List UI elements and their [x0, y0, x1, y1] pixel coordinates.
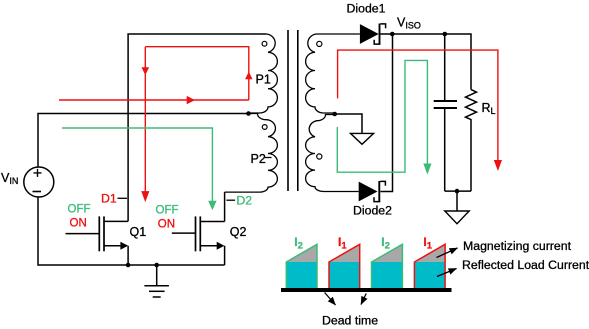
svg-text:Magnetizing current: Magnetizing current — [463, 239, 572, 253]
svg-text:Q2: Q2 — [230, 225, 247, 239]
green current path secondary — [337, 60, 427, 172]
red arrow down mid (primary loop) — [142, 67, 150, 75]
red arrow right (feed line) — [187, 96, 195, 104]
transistor Q2 — [172, 216, 225, 265]
waveform pulse 3 (I2, green) — [372, 244, 403, 288]
svg-text:P1: P1 — [256, 73, 271, 87]
node dot cap branch — [443, 32, 448, 37]
svg-text:VIN: VIN — [1, 171, 18, 186]
diode D1 (Diode1) — [360, 24, 471, 90]
svg-text:Diode1: Diode1 — [347, 2, 386, 16]
svg-text:I1: I1 — [338, 235, 347, 252]
node dot VISO — [390, 32, 395, 37]
capacitor C — [434, 34, 457, 191]
waveform pulse 4 (I1, red) — [414, 244, 445, 288]
red current loop primary — [59, 47, 249, 192]
annotation arrow magnetizing current — [437, 248, 458, 258]
polarity dot secondary lower — [317, 154, 322, 159]
transformer core — [288, 30, 298, 191]
svg-text:I2: I2 — [381, 235, 390, 252]
svg-text:Dead time: Dead time — [322, 314, 378, 328]
ground (primary) — [144, 265, 169, 297]
node dot load rail — [455, 189, 460, 194]
dead time arrow right — [361, 294, 366, 305]
transformer primary winding P2 — [225, 114, 278, 193]
svg-text:I1: I1 — [423, 235, 432, 252]
svg-text:OFF: OFF — [156, 205, 179, 217]
diode D2 (Diode2) — [359, 34, 393, 202]
wire VIN top to primary center tap — [38, 114, 249, 168]
svg-text:VISO: VISO — [397, 15, 421, 30]
svg-text:I2: I2 — [294, 235, 303, 252]
svg-text:OFF: OFF — [68, 203, 91, 215]
wire Q1 drain vertical and top wire to P1 — [128, 34, 265, 221]
red current path secondary — [338, 50, 498, 160]
red arrow up (primary loop right) — [245, 72, 253, 80]
green arrow down (secondary) — [423, 164, 431, 175]
waveform baseline — [281, 288, 452, 292]
voltage source VIN — [1, 167, 54, 197]
node dot Q1 source on rail — [126, 263, 131, 268]
ground (secondary center tap) — [335, 114, 374, 144]
polarity dot P1 — [262, 41, 267, 46]
polarity dot secondary upper — [317, 41, 322, 46]
waveform pulse 2 (I1, red) — [329, 244, 360, 288]
svg-text:ON: ON — [158, 218, 175, 230]
red arrow down end near D1 — [141, 191, 149, 202]
wire P2 bottom to Q2 drain — [224, 192, 226, 221]
resistor RL — [466, 90, 477, 192]
dead time arrow left — [325, 293, 336, 306]
node primary center tap — [246, 111, 251, 116]
node secondary center tap — [332, 112, 337, 117]
transformer secondary lower winding — [306, 115, 359, 192]
svg-text:D1: D1 — [101, 191, 117, 205]
load bottom rail — [445, 190, 471, 192]
red arrow down (secondary) — [494, 160, 502, 171]
svg-text:ON: ON — [70, 217, 87, 229]
node dot ground on rail — [154, 263, 159, 268]
svg-text:P2: P2 — [251, 152, 266, 166]
annotation arrow reflected load current — [437, 269, 457, 277]
ground (load) — [445, 191, 469, 224]
svg-text:D2: D2 — [236, 193, 252, 207]
transformer primary winding P1 — [249, 34, 278, 113]
svg-text:Q1: Q1 — [130, 225, 147, 239]
transformer secondary upper winding — [306, 34, 360, 113]
green current path primary — [62, 128, 212, 202]
svg-text:RL: RL — [482, 101, 496, 116]
transistor Q1 — [66, 216, 129, 265]
polarity dot P2 — [262, 125, 267, 130]
svg-text:Diode2: Diode2 — [353, 203, 392, 217]
svg-text:Reflected Load Current: Reflected Load Current — [462, 258, 589, 272]
wire VIN bottom to ground rail — [38, 197, 225, 265]
green arrow down end near D2 — [208, 201, 216, 211]
waveform pulse 1 (I2, green) — [286, 244, 317, 288]
